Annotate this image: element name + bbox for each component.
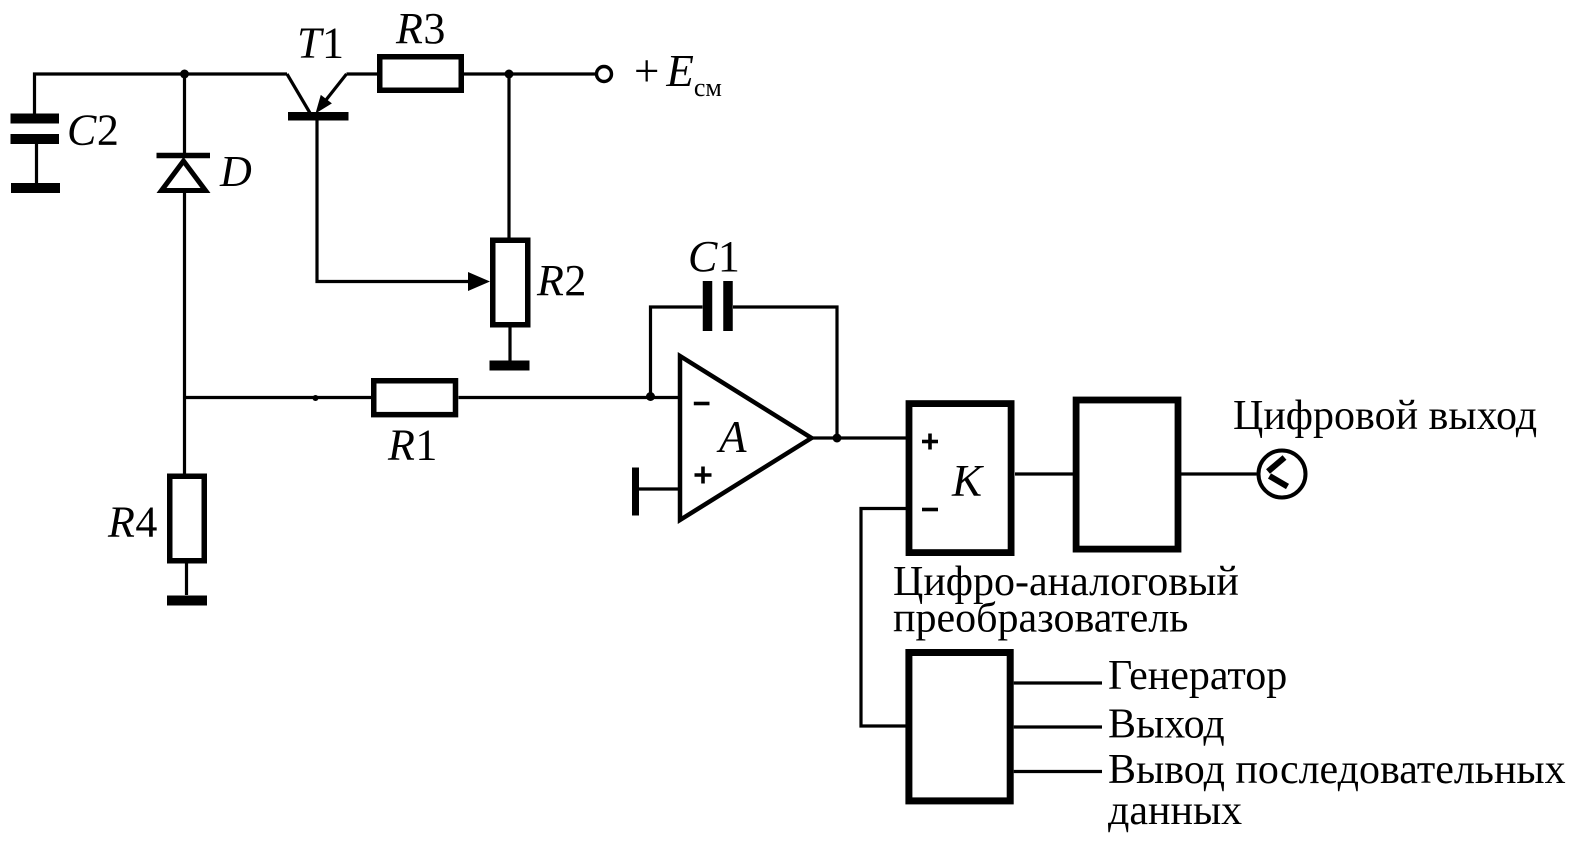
wire K output bbox=[1015, 472, 1073, 475]
svg-text:A: A bbox=[716, 412, 747, 462]
label Вывод последовательных данных bbox=[1108, 747, 1566, 834]
svg-text:K: K bbox=[951, 456, 984, 506]
ground under C2 bbox=[11, 183, 60, 193]
svg-text:C2: C2 bbox=[67, 106, 119, 155]
wire diode to R1 rail and down to R4 bbox=[183, 191, 186, 474]
wire R4 to ground bbox=[185, 564, 188, 596]
wire top rail left bbox=[35, 74, 288, 114]
resistor R4 bbox=[170, 476, 205, 561]
svg-text:R4: R4 bbox=[107, 498, 158, 547]
wire R1 to op-amp bbox=[459, 396, 681, 399]
wire junction to diode bbox=[183, 74, 186, 153]
block U2 (output register) bbox=[1076, 400, 1178, 549]
wire T1 emitter to R3 bbox=[347, 72, 379, 75]
connector: digital output socket bbox=[1259, 451, 1306, 498]
transistor T1 bbox=[287, 74, 490, 291]
svg-text:R3: R3 bbox=[395, 4, 446, 53]
svg-text:Вывод последовательных: Вывод последовательных bbox=[1108, 747, 1566, 793]
ground under R2 bbox=[490, 361, 530, 371]
svg-text:данных: данных bbox=[1108, 788, 1242, 834]
wire op-amp output to K bbox=[812, 436, 907, 439]
svg-text:преобразователь: преобразователь bbox=[893, 596, 1188, 642]
wire Вывод последовательных данных bbox=[1014, 770, 1102, 773]
wire Выход bbox=[1014, 725, 1102, 728]
svg-text:D: D bbox=[219, 147, 252, 196]
node small dot on wire bbox=[313, 395, 319, 401]
terminal +Eсм bbox=[597, 67, 612, 82]
resistor R3 bbox=[380, 57, 462, 91]
ground bar non-inverting input bbox=[632, 468, 639, 516]
capacitor C1 bbox=[708, 281, 729, 331]
svg-text:Цифровой выход: Цифровой выход bbox=[1233, 393, 1537, 439]
node junction top (C2/D/T1) bbox=[180, 70, 189, 79]
wire junction to R2 bbox=[507, 74, 510, 238]
svg-text:R2: R2 bbox=[536, 256, 587, 305]
wire R3 to terminal bbox=[463, 72, 595, 75]
wire K minus input bbox=[861, 509, 906, 727]
wire R2 to ground bbox=[508, 328, 511, 362]
label Цифро-аналоговый преобразователь bbox=[893, 559, 1239, 642]
svg-text:T1: T1 bbox=[297, 19, 344, 68]
svg-text:Выход: Выход bbox=[1108, 702, 1225, 748]
node junction R3/R2 bbox=[505, 70, 514, 79]
node inverting input junction bbox=[646, 392, 655, 401]
ground under R4 bbox=[167, 596, 207, 606]
diode D bbox=[157, 156, 211, 191]
op-amp U1 bbox=[680, 356, 812, 520]
block U3 (control logic) bbox=[909, 653, 1010, 801]
node output junction bbox=[833, 434, 842, 443]
wire non-inverting input bbox=[639, 487, 680, 490]
wire Генератор bbox=[1014, 681, 1102, 684]
resistor R1 bbox=[374, 381, 456, 415]
wire feedback left leg bbox=[651, 307, 703, 397]
svg-text:Генератор: Генератор bbox=[1108, 653, 1287, 699]
svg-text:C1: C1 bbox=[688, 232, 740, 281]
resistor R2 (adjustable) bbox=[493, 240, 528, 325]
svg-text:R1: R1 bbox=[387, 421, 438, 470]
wire R1 rail left bbox=[185, 396, 372, 399]
comparator K bbox=[909, 404, 1011, 553]
capacitor C2 bbox=[11, 119, 60, 184]
wire to digital output connector bbox=[1181, 472, 1257, 475]
wire feedback right leg bbox=[733, 307, 837, 438]
